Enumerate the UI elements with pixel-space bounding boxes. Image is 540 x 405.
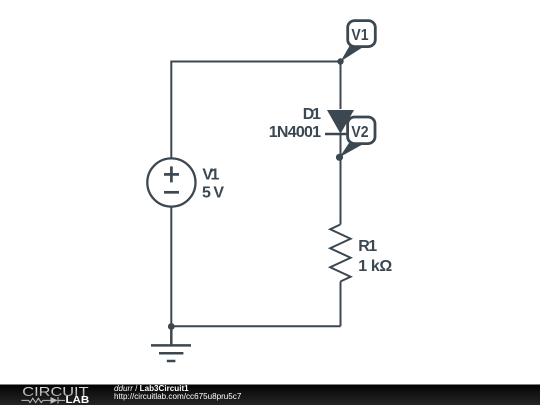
svg-text:D1: D1 [303, 106, 321, 123]
svg-text:http://circuitlab.com/cc675u8p: http://circuitlab.com/cc675u8pru5c7 [114, 392, 242, 401]
svg-text:V1: V1 [351, 27, 368, 44]
svg-text:5 V: 5 V [202, 185, 224, 202]
svg-text:V2: V2 [351, 124, 368, 141]
svg-text:R1: R1 [358, 238, 377, 255]
svg-text:LAB: LAB [66, 395, 90, 405]
svg-text:1N4001: 1N4001 [269, 124, 321, 141]
svg-text:1 kΩ: 1 kΩ [358, 258, 392, 275]
svg-text:V1: V1 [202, 166, 219, 183]
